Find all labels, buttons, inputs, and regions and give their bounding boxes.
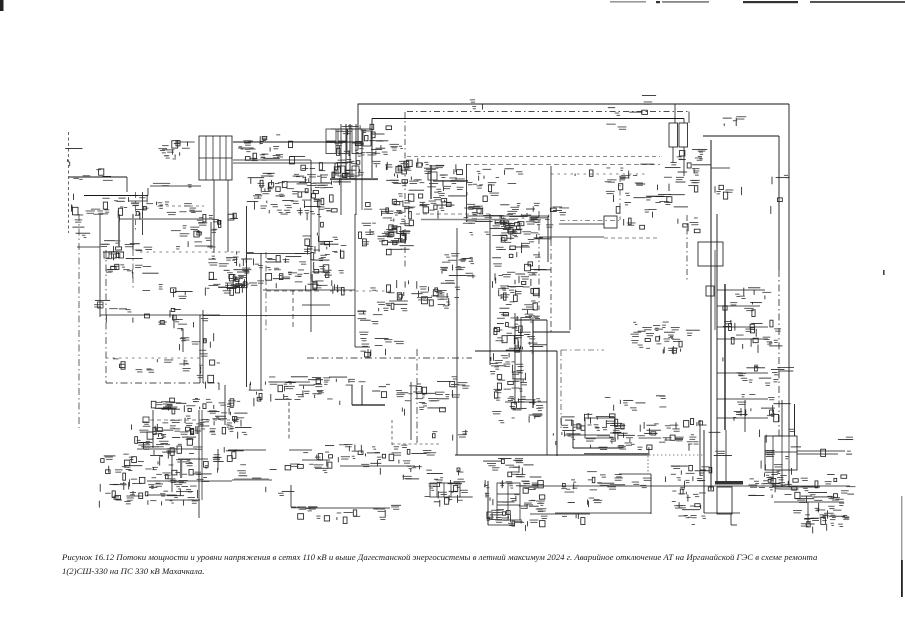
wire 330kV top — [358, 103, 789, 105]
box x98 — [98, 302, 104, 308]
node label row y163 — [372, 161, 409, 170]
wire gray y220 mid — [421, 219, 515, 221]
node label chirkey — [606, 124, 626, 130]
wire — [227, 180, 229, 252]
wire x142 — [142, 192, 144, 235]
node labels left of step — [304, 377, 356, 405]
node ticks x200 — [197, 333, 220, 389]
wire — [717, 417, 768, 419]
wire y195 — [84, 195, 148, 197]
station box Kizilyurt — [199, 136, 232, 180]
wire x225 — [224, 385, 226, 425]
wire — [202, 310, 204, 383]
wire — [289, 449, 312, 451]
node novaya tec col — [381, 200, 415, 234]
wire — [717, 326, 768, 328]
node rotated labels trunk left — [723, 306, 731, 362]
node right col e — [492, 396, 543, 423]
wire x457 — [456, 228, 458, 455]
wire — [717, 398, 768, 400]
node labels left of trunk — [644, 184, 688, 218]
node boxes row x530 — [534, 203, 569, 217]
wire — [807, 502, 809, 522]
wire to right a — [797, 450, 845, 452]
wire faint y174 — [551, 173, 648, 175]
wire — [357, 104, 359, 151]
wire — [331, 128, 372, 130]
box b3 — [119, 252, 124, 258]
box grid a2 — [338, 129, 347, 141]
wire — [569, 237, 571, 330]
wire dash x539 — [538, 211, 540, 310]
node trunk labels y185 — [715, 185, 742, 199]
node bottom far right b — [793, 496, 849, 527]
node trunk stub b — [730, 302, 762, 317]
wire — [160, 205, 204, 207]
node feeder ticks y195 — [86, 195, 154, 222]
node thick bus y454 — [584, 453, 649, 455]
wire x726 — [725, 430, 727, 481]
wire — [703, 135, 779, 137]
wire — [199, 315, 201, 383]
wire y474 — [619, 473, 651, 475]
node thick bar izberbash — [597, 435, 610, 437]
wire y216 — [466, 215, 548, 217]
wire — [288, 402, 290, 440]
box grid a3 — [352, 129, 362, 142]
box Makhachkala B — [679, 123, 688, 147]
node labels x440 — [450, 376, 470, 388]
wire — [354, 214, 356, 347]
wire — [345, 124, 347, 180]
wire — [137, 448, 197, 450]
wire dotted y455 east — [649, 454, 704, 456]
node labels izberbash bottom — [591, 445, 625, 450]
wire — [717, 289, 765, 291]
wire dashed vertical x405 — [404, 112, 406, 267]
wire — [672, 147, 674, 163]
node labels x430 y425 — [433, 430, 468, 441]
wire x319 — [318, 200, 320, 252]
wire — [565, 434, 610, 436]
wire x715 — [714, 250, 716, 330]
node bus gray y181 — [433, 180, 468, 182]
wire y402 — [505, 401, 547, 403]
wire y332 — [533, 331, 570, 333]
node labels active power — [678, 218, 700, 233]
node thick gray y479 — [234, 479, 269, 481]
wire — [487, 481, 489, 525]
wire x794 — [794, 404, 796, 436]
box grid c — [363, 131, 371, 146]
wire — [340, 465, 415, 467]
wire — [781, 436, 783, 470]
wire x311 extended — [310, 160, 312, 332]
node bottom right c — [665, 465, 710, 525]
wire — [233, 159, 311, 161]
box tx block1 — [430, 483, 460, 497]
wire — [232, 479, 272, 481]
wire x467 — [466, 164, 468, 222]
wire — [147, 480, 232, 482]
node text row y508 — [306, 505, 402, 523]
wire buynaksk drop — [118, 220, 120, 247]
box trunk station — [698, 242, 723, 266]
wire — [430, 165, 432, 199]
wire — [772, 470, 774, 487]
wire — [717, 305, 760, 307]
node rotated text x319 — [315, 200, 323, 253]
wire — [290, 485, 292, 507]
wire bottom bus y455 — [455, 454, 649, 456]
node izberbash labels — [553, 413, 625, 445]
wire dashdot y383 — [106, 382, 219, 384]
node label row y205 — [364, 203, 401, 216]
wire dash x266 — [265, 252, 267, 330]
node boxes row y293 — [411, 290, 446, 306]
node labels x281 — [285, 464, 303, 470]
wire — [546, 320, 548, 455]
wire — [788, 436, 790, 470]
node cluster x372 — [373, 292, 408, 315]
wire — [291, 506, 296, 508]
wire — [205, 136, 207, 180]
wire — [355, 124, 357, 215]
wire — [351, 385, 353, 405]
wire — [497, 493, 520, 495]
box chiryurt1 — [338, 166, 345, 176]
node labels y360 — [113, 358, 191, 372]
wire — [233, 162, 348, 164]
wire faint y358 — [106, 357, 200, 359]
wire — [704, 512, 740, 514]
wire — [371, 119, 373, 179]
node cluster x560 bottom — [561, 471, 614, 507]
wire y315 east — [203, 315, 355, 317]
wire — [361, 385, 363, 405]
box aeroport — [143, 417, 149, 423]
node sparse x390 — [402, 475, 419, 480]
node bottom band b — [99, 452, 211, 508]
node cluster x358 — [359, 219, 410, 246]
wire top second — [372, 118, 684, 120]
node tx cluster mid — [440, 253, 475, 278]
node labels x676 — [676, 419, 707, 429]
wire — [147, 494, 175, 496]
wire left bus y177 — [69, 176, 127, 178]
box grid a1 — [326, 129, 336, 141]
node net x385-460 — [385, 158, 465, 219]
wire y382 right — [269, 381, 310, 383]
node tx block 424 — [425, 468, 473, 507]
wire — [550, 166, 552, 240]
wire x521 — [520, 317, 522, 408]
node trunk stub c — [735, 320, 783, 353]
node bottom right a — [610, 422, 699, 455]
node label PTE — [175, 291, 193, 299]
wire — [688, 112, 690, 124]
node label row y286 — [142, 284, 185, 297]
node rotated text x68 — [65, 148, 82, 214]
node labels prinadl — [467, 182, 499, 202]
wire dashdot x106 — [105, 250, 107, 383]
wire — [530, 513, 590, 515]
wire x247 long — [246, 206, 248, 387]
wire — [489, 214, 491, 365]
wire — [573, 447, 620, 449]
wire — [497, 504, 520, 506]
wire dash y214 — [416, 213, 490, 215]
box x428 — [428, 172, 437, 180]
wire — [556, 351, 558, 456]
node kaspiysk boxes — [463, 203, 541, 240]
wire — [683, 147, 685, 176]
node bottom row labels — [303, 444, 436, 475]
node labels y183 — [153, 183, 192, 188]
box Izberbash — [585, 418, 615, 438]
node labels derbent — [588, 477, 595, 482]
wire — [165, 499, 200, 501]
wire right outer vertical — [788, 104, 790, 436]
wire — [703, 430, 705, 513]
wire — [515, 319, 547, 321]
node rotated label trunk — [708, 432, 732, 491]
wire dashed y164 — [466, 164, 660, 166]
wire — [212, 136, 214, 180]
wire x183 — [182, 329, 184, 352]
wire — [77, 246, 100, 248]
wire — [361, 130, 363, 210]
wire — [355, 346, 370, 348]
wire x153 — [152, 410, 154, 448]
node cluster x430 — [433, 280, 460, 308]
wire — [731, 524, 737, 526]
node tiny labels x86 — [94, 300, 110, 307]
box chiryurt2 — [352, 166, 359, 176]
box x706 small — [706, 286, 714, 296]
node labels arsh — [291, 506, 317, 519]
node boxes right of chiryurt — [365, 124, 392, 155]
wire — [218, 383, 220, 390]
wire y253 — [247, 253, 311, 255]
node bottom band a — [135, 425, 203, 458]
wire y486 long — [519, 485, 850, 487]
node trunk stub e — [733, 394, 791, 422]
wire dash x136 — [135, 192, 137, 232]
box grid b2 — [338, 143, 347, 154]
wire dash y220 east — [560, 220, 619, 222]
wire — [443, 483, 445, 497]
wire dashdot x417 — [416, 349, 418, 445]
wire trunk pair x717 — [716, 214, 718, 481]
wire x548 thick — [547, 216, 549, 262]
wire dashdot y358 — [307, 357, 472, 359]
wire thick gray y219 — [118, 218, 215, 220]
wire dash y238 east — [604, 237, 660, 239]
node left bus labels — [73, 169, 112, 181]
node rotated labels trunk right — [729, 320, 735, 344]
wire — [781, 470, 783, 487]
wire — [488, 524, 515, 526]
node gunib chain — [801, 506, 849, 534]
wire y513 — [555, 512, 651, 514]
node sparse mid — [357, 305, 403, 357]
wire dash x293 — [292, 290, 294, 330]
node trunk stub a — [735, 288, 771, 300]
node label row y285 — [370, 280, 442, 297]
wire x199 — [198, 410, 200, 518]
box tx block2 — [497, 483, 520, 520]
wire dash x620 — [619, 176, 621, 220]
wire — [781, 400, 783, 436]
wire x127 — [126, 177, 128, 192]
wire x261 — [260, 253, 262, 390]
box Irganay GES — [765, 436, 797, 470]
wire — [171, 455, 173, 492]
wire dash x561 — [560, 350, 562, 428]
wire — [392, 443, 440, 445]
wire x218 — [217, 449, 219, 470]
wire dash-dot x79 — [78, 214, 80, 428]
box x604 — [604, 216, 617, 228]
box b1 — [104, 252, 109, 258]
wire main trunk x711 — [710, 140, 712, 490]
node labels below y220 — [171, 225, 217, 249]
wire — [225, 136, 227, 180]
node labels above block — [483, 458, 541, 477]
node rotated label right — [771, 175, 790, 214]
wire — [391, 420, 393, 446]
wire — [744, 400, 746, 432]
wire — [263, 289, 355, 291]
node right col a — [492, 215, 534, 253]
node labels below y315 — [174, 318, 208, 327]
wire — [788, 470, 790, 487]
wire — [475, 350, 557, 352]
node chain x183 labels — [177, 328, 199, 350]
node net below y178 — [247, 173, 351, 220]
node labels y315 — [106, 308, 182, 328]
wire x700 — [699, 420, 701, 476]
node dense block izberbash110 — [485, 480, 548, 531]
wire — [300, 507, 390, 509]
wire — [674, 104, 676, 124]
node right col c — [494, 301, 547, 354]
wire — [717, 372, 768, 374]
wire faint dashes y252 — [140, 251, 240, 253]
wire dash y350 — [561, 349, 604, 351]
wire dashed top — [407, 111, 689, 113]
wire thick trunk x725 — [724, 284, 726, 430]
node label vl330 — [642, 96, 656, 105]
node label row right — [605, 396, 667, 411]
wire dotted x648 — [647, 456, 649, 474]
wire x411 — [410, 382, 412, 440]
wire — [532, 320, 534, 408]
wire — [219, 136, 221, 180]
node labels turali — [266, 487, 295, 496]
node labels kizilyurt left — [158, 141, 194, 160]
node cluster x247 y376 — [249, 377, 315, 407]
wire — [550, 240, 552, 332]
node label right2 — [821, 449, 852, 456]
wire — [717, 338, 768, 340]
wire — [201, 410, 203, 500]
wire — [213, 180, 215, 253]
node labels step top — [359, 381, 390, 397]
node bottom right b — [607, 474, 651, 490]
node labels below makhachkala — [664, 149, 711, 192]
node labels y205 — [157, 202, 197, 216]
wire — [711, 167, 730, 169]
node label x566 — [575, 170, 593, 176]
node subnet left edge — [605, 164, 665, 213]
wire — [349, 124, 351, 180]
wire — [683, 119, 685, 124]
node right col b — [492, 252, 551, 302]
node cluster x625 — [631, 322, 700, 355]
wire — [302, 459, 330, 461]
wire — [302, 304, 330, 306]
wire y450 seg — [234, 449, 266, 451]
node label 708 line — [470, 99, 483, 109]
node tx row x500 — [501, 215, 554, 242]
node sparse labels y147 — [389, 144, 403, 151]
box Makhachkala A — [669, 123, 678, 147]
wire x651 — [650, 474, 652, 514]
wire — [367, 349, 369, 358]
node bottom band c — [213, 447, 246, 473]
node trunk stub d — [736, 365, 794, 386]
wire — [178, 458, 208, 460]
wire — [730, 514, 732, 525]
wire — [99, 214, 101, 317]
wire y420 faint — [150, 419, 230, 421]
caption figure 16.12 — [62, 551, 857, 579]
wire — [340, 124, 342, 215]
node buynaksk cluster — [101, 240, 159, 278]
wire thick y405 — [352, 404, 385, 406]
wire — [514, 313, 516, 405]
node chain x384 — [386, 225, 413, 255]
box grid b1 — [326, 143, 336, 154]
node labels below Irganay — [754, 471, 798, 488]
wire — [147, 188, 149, 196]
node cluster x395 — [396, 382, 460, 416]
wire dash y291 — [266, 290, 320, 292]
node cluster x302 — [303, 236, 347, 296]
node right col d — [490, 353, 527, 398]
node label makhachkala — [608, 108, 648, 116]
node labels above y220 — [179, 211, 238, 227]
node cluster x252 — [254, 258, 304, 288]
wire — [507, 483, 509, 520]
wire y315 — [100, 314, 220, 316]
node labels line303 — [238, 134, 305, 164]
wire y186 — [150, 185, 201, 187]
node label right of Irganay — [838, 437, 853, 440]
node mid station net — [205, 256, 250, 296]
node labels right of box604 — [624, 218, 645, 229]
wire right inner dash — [778, 270, 780, 436]
wire y142 — [233, 141, 358, 143]
node box row y255 — [276, 254, 306, 265]
wire — [772, 486, 820, 488]
node labels belidzhi — [562, 514, 585, 525]
box below trunk bus — [717, 487, 732, 514]
box b2 — [112, 252, 117, 258]
wire buynaksk row — [103, 251, 124, 253]
